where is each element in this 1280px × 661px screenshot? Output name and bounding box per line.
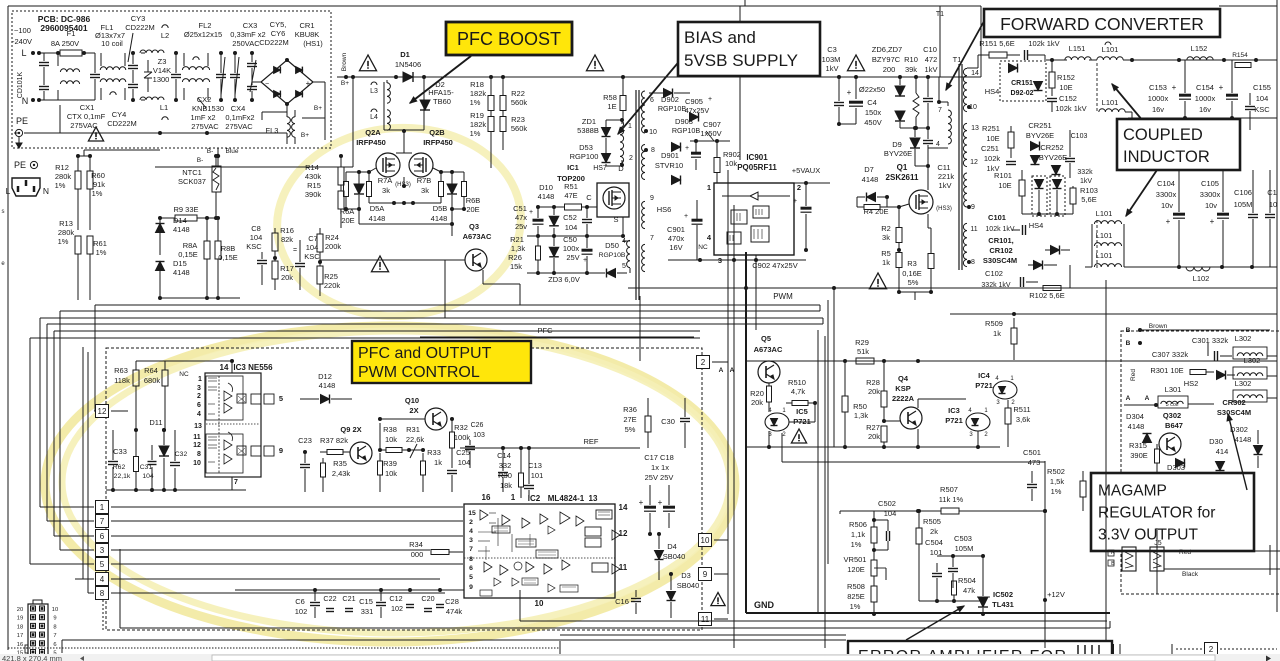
svg-text:1%: 1%	[92, 189, 103, 198]
warning triangle c3	[847, 55, 864, 71]
svg-text:R29: R29	[855, 338, 869, 347]
svg-text:T1: T1	[953, 55, 962, 64]
svg-text:R58: R58	[603, 93, 617, 102]
svg-text:F1: F1	[67, 29, 76, 38]
svg-text:R24: R24	[325, 233, 339, 242]
resistor R6B 20E	[462, 172, 481, 214]
svg-text:2960095401: 2960095401	[40, 23, 88, 33]
svg-text:R62: R62	[113, 464, 126, 471]
svg-text:IC901: IC901	[746, 153, 768, 162]
svg-text:C101: C101	[988, 213, 1006, 222]
svg-text:R18: R18	[470, 80, 484, 89]
pin header connector	[17, 600, 58, 661]
optocoupler IC3 P721	[945, 406, 990, 447]
svg-text:100x: 100x	[563, 244, 580, 253]
svg-text:R315: R315	[1129, 441, 1147, 450]
diode CR right 2	[1028, 261, 1057, 270]
svg-text:D11: D11	[149, 418, 162, 427]
mosfet Q2A IRFP450	[356, 128, 400, 177]
svg-text:BZY97C: BZY97C	[872, 55, 901, 64]
diode D50 RGP10B	[596, 238, 627, 278]
svg-text:7: 7	[650, 235, 654, 242]
PWM section dashed box	[106, 348, 702, 630]
svg-text:HS2: HS2	[1184, 379, 1199, 388]
resistor R3 0,16E	[902, 228, 934, 292]
svg-text:R27: R27	[866, 423, 880, 432]
svg-text:N: N	[43, 186, 49, 196]
svg-text:IC502: IC502	[993, 590, 1013, 599]
svg-text:8: 8	[971, 259, 975, 266]
capacitor C30	[661, 398, 690, 448]
node B brown	[1126, 323, 1270, 334]
svg-text:3,6k: 3,6k	[1016, 415, 1030, 424]
svg-text:7: 7	[938, 107, 942, 114]
svg-text:R35: R35	[333, 459, 347, 468]
capacitor C25 104	[447, 448, 470, 492]
svg-text:450V: 450V	[864, 118, 882, 127]
svg-text:390k: 390k	[305, 190, 322, 199]
svg-text:R34: R34	[409, 540, 423, 549]
svg-text:102k 1kV: 102k 1kV	[1028, 39, 1059, 48]
capacitor CX4	[225, 51, 254, 131]
capacitor C107	[1265, 170, 1277, 267]
svg-text:9: 9	[971, 204, 975, 211]
svg-text:A673AC: A673AC	[463, 232, 492, 241]
resistor R24	[317, 228, 341, 262]
svg-text:275VAC: 275VAC	[225, 122, 253, 131]
diode D304 4148	[1126, 412, 1151, 443]
capacitor C101 102k 1kV	[985, 213, 1025, 235]
connector box 11 right	[699, 613, 729, 626]
svg-text:16v: 16v	[1152, 105, 1164, 114]
wire bottom long 1	[120, 549, 1110, 628]
svg-text:2X: 2X	[409, 406, 418, 415]
svg-text:J5: J5	[1154, 540, 1162, 547]
capacitor C23	[298, 436, 312, 492]
svg-text:-240V: -240V	[12, 37, 32, 46]
warning triangle pwm right	[711, 593, 725, 606]
svg-text:Red: Red	[1130, 369, 1137, 381]
capacitor C901 470x 16V	[667, 200, 702, 260]
transistor Q1 2SK2611	[886, 163, 919, 182]
svg-text:10E: 10E	[1059, 83, 1072, 92]
svg-text:1,3k: 1,3k	[854, 411, 868, 420]
choke FL1	[95, 23, 126, 100]
svg-text:000: 000	[411, 550, 424, 559]
diode D4 SB040	[655, 532, 686, 580]
svg-text:13: 13	[971, 125, 979, 132]
svg-text:ZD3 6,0V: ZD3 6,0V	[548, 275, 580, 284]
wire vertical pfc-out	[820, 288, 834, 447]
resistor R152 10E	[1049, 58, 1075, 96]
svg-text:3300x: 3300x	[1200, 190, 1221, 199]
svg-text:11: 11	[619, 563, 628, 572]
svg-text:(HS3): (HS3)	[395, 182, 411, 188]
svg-text:430k: 430k	[305, 172, 322, 181]
svg-text:20k: 20k	[751, 398, 763, 407]
svg-text:R13: R13	[59, 219, 73, 228]
svg-text:C105: C105	[1201, 179, 1219, 188]
resistor R63 118k	[114, 361, 139, 430]
diode D15	[156, 259, 190, 298]
svg-text:+: +	[1172, 83, 1177, 92]
resistor R13	[58, 219, 81, 300]
svg-text:R17: R17	[280, 264, 294, 273]
wire q3 emitter	[483, 270, 520, 305]
svg-text:CX4: CX4	[231, 104, 246, 113]
svg-text:ML4824-1: ML4824-1	[548, 494, 585, 503]
resistor R5 1k	[881, 249, 902, 292]
resistor R38 10k	[378, 423, 411, 453]
svg-text:+: +	[685, 145, 689, 152]
capacitor C501 473	[1023, 448, 1045, 511]
wire rail y447	[746, 445, 1000, 449]
capacitor C51 47x25v	[513, 204, 543, 238]
svg-text:200k: 200k	[325, 242, 342, 251]
svg-text:R5: R5	[881, 249, 891, 258]
svg-text:1%: 1%	[96, 248, 107, 257]
svg-text:25V: 25V	[566, 253, 579, 262]
svg-text:C901: C901	[667, 225, 685, 234]
svg-text:R36: R36	[623, 405, 637, 414]
diode D53 RGP100	[570, 138, 611, 166]
text ~100 -240V	[12, 26, 32, 46]
svg-text:s: s	[2, 209, 5, 215]
svg-text:2222A: 2222A	[892, 394, 915, 403]
text +5VAUX	[790, 166, 830, 185]
mosfet Q1 symbol	[899, 166, 933, 228]
warning triangle under pfc	[371, 256, 388, 272]
svg-text:C251: C251	[981, 144, 999, 153]
svg-text:L152: L152	[1191, 44, 1208, 53]
svg-text:2: 2	[469, 519, 473, 526]
svg-text:C50: C50	[563, 235, 577, 244]
svg-text:R51: R51	[564, 182, 578, 191]
svg-text:1%: 1%	[470, 98, 481, 107]
svg-text:+: +	[708, 96, 712, 103]
svg-text:27E: 27E	[623, 415, 636, 424]
connector boxes 1-8	[96, 501, 109, 600]
svg-text:104: 104	[565, 223, 578, 232]
svg-text:8: 8	[53, 624, 56, 630]
capacitor CX3	[216, 21, 266, 102]
svg-text:2: 2	[629, 155, 633, 162]
warning triangle PFC left	[359, 55, 376, 71]
capacitor C32	[170, 430, 187, 492]
optocoupler IC5 P721	[765, 407, 811, 447]
svg-text:15: 15	[468, 510, 476, 517]
svg-text:R504: R504	[958, 576, 976, 585]
resistor R36 27E 5%	[623, 398, 651, 448]
resistor R22 R23 560k	[500, 75, 527, 150]
wire out rail B	[1128, 116, 1277, 120]
svg-text:L302: L302	[1235, 379, 1252, 388]
svg-text:+: +	[306, 79, 311, 88]
capacitor C504 101	[925, 538, 943, 601]
svg-text:275VAC: 275VAC	[70, 121, 98, 130]
svg-text:12: 12	[619, 529, 628, 538]
resistor R16	[272, 226, 294, 258]
svg-text:Brown: Brown	[1149, 323, 1168, 330]
text Red vertical	[1130, 369, 1137, 381]
svg-text:3300x: 3300x	[1156, 190, 1177, 199]
svg-text:KSC: KSC	[1254, 105, 1270, 114]
svg-text:R8B: R8B	[221, 244, 236, 253]
diode D12 4148	[300, 372, 352, 404]
resistor R39 10k	[378, 453, 398, 492]
svg-text:1%: 1%	[851, 540, 862, 549]
svg-text:47x: 47x	[515, 213, 527, 222]
text PE terminal	[15, 116, 28, 148]
svg-text:R38: R38	[383, 425, 397, 434]
capacitor C104 3300x 10v	[1156, 170, 1185, 267]
svg-text:0,15E: 0,15E	[178, 250, 198, 259]
svg-text:14: 14	[220, 363, 229, 372]
wire PFC loop	[384, 77, 424, 153]
svg-text:2: 2	[797, 183, 801, 192]
choke FL3	[266, 105, 323, 144]
capacitor C17 C18	[639, 453, 675, 536]
transistor Q10 2X	[378, 396, 447, 430]
wire pfc mid row	[369, 201, 441, 205]
svg-text:RGP100: RGP100	[570, 152, 599, 161]
inductor L151	[1046, 44, 1091, 60]
svg-text:A: A	[1126, 395, 1131, 402]
svg-text:Q1: Q1	[897, 163, 908, 172]
svg-text:C51: C51	[513, 204, 527, 213]
wire bulk rail	[630, 77, 981, 130]
svg-text:102: 102	[391, 604, 403, 613]
svg-text:5: 5	[622, 263, 626, 270]
svg-text:10: 10	[649, 129, 657, 136]
svg-text:332: 332	[499, 461, 512, 470]
svg-text:10: 10	[535, 599, 544, 608]
svg-text:L101: L101	[1096, 209, 1113, 218]
svg-text:474k: 474k	[446, 607, 463, 616]
label BIAS and 5VSB SUPPLY	[678, 22, 820, 76]
svg-text:200: 200	[883, 65, 896, 74]
svg-text:C106: C106	[1234, 188, 1252, 197]
svg-text:0,16E: 0,16E	[902, 269, 922, 278]
svg-text:104: 104	[884, 509, 897, 518]
wire ic901 bottom	[755, 255, 757, 296]
thermistor NTC1	[178, 154, 221, 218]
svg-text:R511: R511	[1013, 405, 1030, 414]
resistor R8B	[215, 216, 238, 298]
svg-text:R21: R21	[510, 235, 524, 244]
svg-text:=: =	[293, 247, 297, 254]
resistor R7B 3k	[417, 172, 444, 203]
rectifier CR101 HS4 box	[1032, 176, 1047, 216]
svg-text:R30: R30	[498, 471, 512, 480]
resistor R154	[1232, 52, 1251, 68]
svg-text:182k: 182k	[470, 89, 487, 98]
svg-text:Q5: Q5	[761, 334, 771, 343]
capacitor C902	[752, 183, 811, 270]
svg-text:4: 4	[936, 141, 940, 148]
svg-text:150x: 150x	[865, 108, 882, 117]
svg-text:47x25V: 47x25V	[685, 106, 710, 115]
resistor R509 1k	[985, 318, 1017, 360]
diode HS2	[1184, 371, 1235, 389]
transformer T3 core	[636, 90, 639, 300]
resistor R10 39k	[904, 55, 919, 128]
svg-text:3: 3	[100, 546, 105, 555]
svg-text:414: 414	[1216, 447, 1229, 456]
svg-text:14: 14	[971, 70, 979, 77]
svg-text:82k: 82k	[281, 235, 293, 244]
transformer T1 sec winding 13-12	[963, 123, 979, 166]
svg-text:7: 7	[469, 546, 473, 553]
resistor R102 5,6E	[1029, 265, 1070, 300]
svg-text:R61: R61	[93, 239, 107, 248]
svg-text:102k: 102k	[984, 154, 1001, 163]
svg-text:RGP10B: RGP10B	[658, 104, 687, 113]
svg-text:18: 18	[17, 624, 23, 630]
svg-text:B: B	[1126, 340, 1131, 347]
zener ZD6 ZD7	[872, 45, 905, 128]
wire ladder bottom	[158, 296, 240, 300]
resistor R1035 5,6E	[1070, 186, 1098, 214]
wire bias down	[640, 296, 756, 361]
svg-text:HS4: HS4	[985, 87, 1000, 96]
svg-text:8: 8	[469, 556, 473, 563]
svg-text:1%: 1%	[1051, 487, 1062, 496]
svg-text:5: 5	[100, 560, 105, 569]
resistor R32 100k	[450, 417, 471, 468]
label FORWARD CONVERTER	[984, 9, 1220, 37]
viewer status bar	[0, 654, 1280, 661]
svg-text:L302: L302	[1235, 334, 1252, 343]
svg-text:221k: 221k	[938, 172, 955, 181]
wire magamp mid	[1124, 404, 1214, 405]
svg-text:R: R	[1111, 550, 1115, 556]
svg-text:5 coil: 5 coil	[1166, 402, 1179, 408]
svg-text:D304: D304	[1126, 412, 1144, 421]
svg-text:10k: 10k	[725, 159, 737, 168]
resistor R51 47E	[538, 182, 597, 210]
svg-text:C307 332k: C307 332k	[1152, 350, 1189, 359]
svg-text:C26: C26	[471, 422, 484, 429]
inductor L101 top	[1089, 42, 1145, 62]
svg-text:12: 12	[98, 407, 107, 416]
terminal L	[21, 48, 41, 58]
shunt IC502 TL431	[977, 556, 1014, 616]
svg-text:332k: 332k	[1077, 169, 1093, 176]
svg-text:PWM: PWM	[773, 292, 793, 301]
svg-text:V14K: V14K	[153, 66, 171, 75]
capacitor C155 104 KSC	[1245, 83, 1271, 130]
diode D9 BYV26E	[884, 126, 928, 166]
capacitor C3 103M 1kV	[822, 45, 844, 124]
wire PE bottom rail	[14, 105, 287, 141]
capacitor C7	[293, 234, 320, 290]
svg-text:18k: 18k	[500, 481, 512, 490]
transformer T1 core	[959, 64, 962, 270]
svg-text:C155: C155	[1253, 83, 1271, 92]
transistor Q5 A673AC	[754, 334, 783, 383]
svg-text:TB60: TB60	[433, 97, 451, 106]
resistor R35 2,43k	[321, 458, 351, 492]
wire pwm horizontals	[628, 286, 1277, 330]
svg-text:C6: C6	[295, 597, 305, 606]
node A label	[719, 367, 735, 374]
svg-text:1: 1	[628, 123, 632, 130]
wire bottom long 2	[520, 590, 1107, 621]
connector box 12	[94, 405, 128, 418]
svg-text:CX3: CX3	[243, 21, 258, 30]
svg-text:1k: 1k	[882, 258, 890, 267]
svg-text:1,5k: 1,5k	[1050, 477, 1064, 486]
svg-text:1,3k: 1,3k	[511, 244, 525, 253]
svg-text:RGP10B: RGP10B	[599, 252, 626, 259]
svg-text:C10: C10	[923, 45, 937, 54]
resistor R50 1,3k	[842, 361, 868, 447]
capacitor C106 105M	[1234, 170, 1258, 267]
resistor R7A 3k	[367, 172, 411, 203]
svg-text:D10: D10	[539, 183, 553, 192]
svg-text:5: 5	[279, 394, 283, 403]
svg-text:1300: 1300	[153, 75, 170, 84]
svg-text:C16: C16	[615, 597, 629, 606]
svg-text:10E: 10E	[986, 134, 999, 143]
transistor Q3 A673AC	[320, 222, 492, 271]
svg-text:680k: 680k	[144, 376, 161, 385]
transformer T3 primary	[606, 118, 633, 167]
diode D1 1N5406	[394, 50, 426, 82]
svg-text:(HS1): (HS1)	[303, 39, 323, 48]
svg-text:R3: R3	[907, 259, 917, 268]
svg-text:D4: D4	[667, 542, 677, 551]
page top border	[8, 0, 1277, 6]
highlight ellipse PWM area	[45, 326, 735, 642]
svg-text:Q2A: Q2A	[365, 128, 381, 137]
svg-text:D901: D901	[661, 151, 679, 160]
svg-text:CTX 0,1mF: CTX 0,1mF	[67, 112, 106, 121]
svg-text:R902: R902	[723, 150, 741, 159]
wire L rail	[39, 52, 95, 54]
wire B- blue bus	[155, 77, 353, 167]
wire mosfet drains	[396, 153, 412, 188]
svg-text:R101: R101	[994, 171, 1012, 180]
diode D301 4148	[1209, 437, 1228, 471]
mosfet Q2B IRFP450	[409, 128, 453, 177]
svg-text:R510: R510	[788, 378, 806, 387]
svg-text:PE: PE	[16, 116, 28, 126]
wire erramp bottom	[919, 599, 983, 603]
svg-text:16: 16	[17, 642, 23, 648]
svg-text:Q3: Q3	[469, 222, 479, 231]
svg-text:IC1: IC1	[567, 163, 579, 172]
transformer T1 primary coil	[928, 102, 951, 148]
svg-text:CY5,: CY5,	[270, 20, 287, 29]
capacitor row C6 C22 C21 C15 C12 C20 C28	[295, 590, 463, 618]
inductor L1	[140, 97, 168, 120]
svg-text:CR101,: CR101,	[988, 236, 1013, 245]
capacitor C153 1000x 16v	[1148, 60, 1191, 118]
capacitor C502 104	[874, 499, 896, 550]
fuse F1	[51, 29, 86, 56]
resistor R507 11k 1%	[939, 485, 964, 514]
wire gate row	[346, 168, 464, 174]
svg-text:R15: R15	[307, 181, 321, 190]
svg-text:CR251: CR251	[1028, 121, 1051, 130]
svg-text:560k: 560k	[511, 124, 528, 133]
svg-text:9: 9	[279, 446, 283, 455]
svg-text:1kV: 1kV	[1080, 178, 1092, 185]
svg-text:B: B	[1126, 327, 1131, 334]
svg-text:R4 20E: R4 20E	[863, 207, 888, 216]
